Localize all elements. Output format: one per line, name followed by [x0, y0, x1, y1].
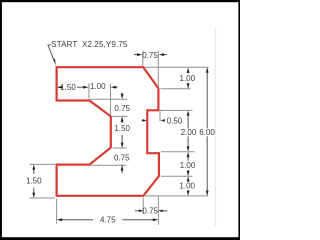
- svg-text:1.50: 1.50: [60, 83, 76, 92]
- svg-text:4.75: 4.75: [100, 216, 116, 225]
- svg-text:6.00: 6.00: [199, 128, 215, 137]
- svg-text:1.00: 1.00: [180, 74, 196, 83]
- dimension texts: [26, 40, 215, 225]
- right 1.00 chamfer stems: [187, 72, 189, 74]
- ext right from L (Y5.25): [90, 164, 127, 166]
- leader arrowhead: [53, 59, 56, 66]
- 6.00 arrows: [206, 67, 209, 72]
- ext right from C (Y8.75): [160, 88, 190, 90]
- ext below I (X6.25): [142, 198, 144, 215]
- svg-text:1.50: 1.50: [26, 177, 42, 186]
- middle 0.75 upper arrow down: [121, 94, 124, 99]
- part outline (red profile): [57, 67, 159, 196]
- top 0.75 right stem: [163, 54, 167, 56]
- top 0.75 arrows (outside, pointing in): [137, 53, 142, 56]
- middle arrow up at Y7.50: [121, 116, 124, 121]
- svg-text:1.00: 1.00: [179, 182, 195, 191]
- left 1.50 arrows: [32, 164, 35, 169]
- right 1.00 chamfer arrows: [187, 68, 190, 73]
- 1.00 top right arrow (outside, pointing in): [111, 86, 116, 89]
- ext right from G (Y5.75): [161, 151, 194, 153]
- ext below H (X7.00): [157, 197, 159, 225]
- middle arrow down at Y6.00: [121, 143, 124, 148]
- ext right from M (Y6.00): [113, 147, 127, 149]
- page edge faint line: [215, 28, 217, 226]
- black frame border: [0, 0, 240, 2]
- 1.50 top arrows (inside, pointing out): [57, 86, 62, 89]
- right 1.00 (G-H) stems: [187, 156, 189, 161]
- ext right from N (Y7.50): [111, 115, 128, 117]
- svg-text:0.75: 0.75: [142, 206, 158, 215]
- 2.00 arrows: [187, 110, 190, 115]
- svg-text:0.75: 0.75: [142, 51, 158, 60]
- 6.00 stems: [206, 72, 208, 129]
- right 1.00 H-bottom arrows: [187, 176, 190, 181]
- svg-text:1.50: 1.50: [114, 124, 130, 133]
- ext right from O (Y8.25): [90, 98, 128, 100]
- svg-text:0.75: 0.75: [114, 153, 130, 162]
- svg-text:START X2.25,Y9.75: START X2.25,Y9.75: [51, 40, 128, 49]
- bottom 0.75 arrows: [139, 210, 144, 213]
- extension lines (gray): [30, 51, 209, 225]
- svg-text:0.50: 0.50: [167, 116, 183, 125]
- ext left from J (Y3.75 left): [30, 197, 56, 199]
- ext above/through C for top 0.75: [157, 51, 159, 88]
- 0.50 stems: [141, 119, 144, 121]
- ext below J (X2.25): [56, 199, 58, 224]
- ext above O for 1.50/1.00: [88, 84, 90, 99]
- top 0.75 left stem: [134, 54, 138, 56]
- 4.75 stems: [61, 219, 93, 221]
- middle arrow up at Y5.25: [121, 165, 124, 170]
- 4.75 arrows: [57, 218, 62, 221]
- right 1.00 G-H arrows: [187, 152, 190, 157]
- left 1.50 stems: [33, 169, 35, 174]
- bottom 0.75 stems: [135, 210, 139, 212]
- 1.50 top stems: [59, 86, 61, 88]
- ext above N for 1.00: [110, 84, 112, 116]
- ext below D for 0.50: [159, 111, 161, 121]
- 1.00 top outside stems: [116, 86, 118, 88]
- ext above B for top 0.75: [142, 51, 144, 66]
- svg-text:1.00: 1.00: [90, 82, 106, 91]
- svg-text:2.00: 2.00: [181, 128, 197, 137]
- 0.50 arrows: [142, 119, 147, 122]
- long ext right from bottom edge (Y3.75): [145, 195, 209, 197]
- leader line for START note: [48, 45, 55, 62]
- ext right from H (Y4.75): [161, 175, 193, 177]
- ext left from K (Y5.25 left): [30, 163, 56, 165]
- long ext right from B (Y9.75 top): [145, 66, 209, 68]
- middle stack stems: [121, 93, 123, 95]
- arrowheads: [32, 53, 208, 221]
- ext right from D (Y7.75): [160, 109, 193, 111]
- svg-text:0.75: 0.75: [114, 104, 130, 113]
- svg-text:1.00: 1.00: [180, 161, 196, 170]
- dimension lines (stems): [34, 55, 207, 220]
- right 1.00 (H-bottom) stems: [187, 179, 189, 182]
- 2.00 stems: [187, 115, 189, 129]
